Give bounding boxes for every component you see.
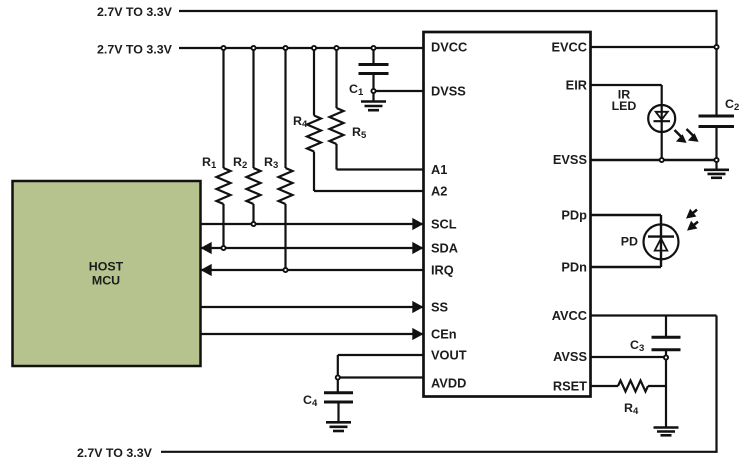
svg-text:PDp: PDp — [561, 208, 587, 223]
ground (C3 / RSET) — [654, 428, 679, 436]
svg-text:IRQ: IRQ — [431, 263, 454, 278]
wire EVSS — [591, 159, 717, 161]
wire RSET lead — [591, 385, 619, 387]
IR LED emission arrows — [675, 129, 699, 143]
wire EIR to IR LED — [591, 85, 662, 160]
wire EVCC — [591, 46, 717, 48]
wire VOUT loop to AVDD — [338, 355, 424, 393]
capacitor C4 — [324, 393, 353, 423]
svg-text:EVSS: EVSS — [553, 152, 588, 167]
wire SDA — [201, 242, 424, 254]
capacitor C2 — [699, 116, 735, 127]
capacitor C3 — [652, 337, 681, 427]
svg-text:DVSS: DVSS — [431, 84, 466, 99]
resistor R5 — [330, 48, 344, 170]
svg-text:HOST: HOST — [89, 260, 124, 274]
wire AVCC branch to C3 — [665, 316, 667, 338]
IR LED D1 — [648, 105, 675, 132]
svg-text:CEn: CEn — [431, 327, 457, 342]
wire top rail right vertical down to C2 top plate — [715, 10, 717, 116]
svg-text:EVCC: EVCC — [551, 40, 587, 55]
wire CEn — [201, 328, 424, 340]
ground (C4) — [326, 422, 351, 431]
svg-text:VOUT: VOUT — [431, 348, 467, 363]
svg-text:RSET: RSET — [553, 379, 587, 394]
svg-text:MCU: MCU — [92, 274, 120, 288]
wire SS — [201, 301, 424, 313]
node R1 / SDA — [221, 246, 225, 250]
node C1 / DVSS — [371, 89, 375, 93]
node rail R4 — [312, 46, 316, 50]
ground (EVSS right) — [704, 170, 729, 178]
resistor R3 — [279, 48, 293, 270]
wire A1 — [337, 168, 424, 170]
svg-text:DVCC: DVCC — [431, 40, 467, 55]
resistor R2 — [247, 48, 261, 224]
node EVCC junction — [714, 45, 718, 49]
svg-text:A2: A2 — [431, 184, 447, 199]
node IR LED cathode / EVSS — [660, 158, 664, 162]
svg-text:SS: SS — [431, 300, 449, 315]
wire A2 — [314, 190, 424, 192]
node rail R2 — [251, 46, 255, 50]
svg-text:2.7V TO 3.3V: 2.7V TO 3.3V — [97, 5, 173, 19]
node EVSS / ground — [714, 158, 718, 162]
host MCU block — [13, 181, 201, 366]
wire DVSS — [374, 90, 424, 92]
wire AVSS — [591, 356, 667, 358]
wire C2 bottom plate to EVSS rail — [715, 127, 717, 170]
svg-text:EIR: EIR — [566, 78, 587, 93]
node rail R1 — [221, 46, 225, 50]
wire DVCC supply rail — [179, 47, 424, 49]
svg-text:2.7V TO 3.3V: 2.7V TO 3.3V — [97, 43, 173, 57]
node VOUT / AVDD / C4 — [336, 375, 340, 379]
svg-text:LED: LED — [612, 99, 637, 113]
resistor R1 — [217, 48, 231, 248]
svg-text:2.7V TO 3.3V: 2.7V TO 3.3V — [77, 446, 153, 460]
resistor R4 (address pullup) — [307, 48, 321, 191]
svg-text:PDn: PDn — [561, 260, 587, 275]
capacitor C1 — [359, 48, 389, 102]
wire PDn — [591, 266, 662, 269]
ground (C1 / DVSS) — [361, 102, 386, 111]
svg-text:AVCC: AVCC — [552, 308, 587, 323]
node AVSS / C3 — [664, 355, 668, 359]
wire AVCC — [591, 316, 717, 452]
node R2 / SCL — [251, 222, 255, 226]
wire bottom supply rail — [161, 451, 718, 453]
node rail R3 — [283, 46, 287, 50]
node R3 / IRQ — [283, 268, 287, 272]
node rail C1 — [371, 46, 375, 50]
wire SCL — [201, 218, 424, 230]
wire IRQ — [201, 264, 424, 276]
wire top rail horizontal — [179, 10, 717, 12]
resistor R4 (RSET) — [618, 381, 648, 392]
svg-text:AVDD: AVDD — [431, 376, 466, 391]
PD incident light arrows — [686, 209, 698, 231]
photodiode PD — [644, 224, 679, 259]
svg-text:SDA: SDA — [431, 241, 458, 256]
svg-text:AVSS: AVSS — [553, 349, 587, 364]
svg-text:PD: PD — [621, 235, 638, 249]
svg-text:A1: A1 — [431, 162, 447, 177]
IC block — [424, 32, 591, 397]
wire PDp to PD — [591, 215, 662, 267]
wire R4 to ground column — [648, 385, 666, 387]
svg-text:SCL: SCL — [431, 217, 457, 232]
node rail R5 — [334, 46, 338, 50]
